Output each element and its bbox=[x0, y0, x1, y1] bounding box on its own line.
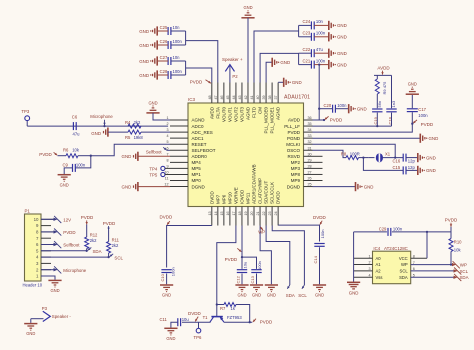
svg-text:29: 29 bbox=[308, 158, 312, 162]
svg-text:100n: 100n bbox=[171, 267, 176, 276]
wire pin23 SCL/CCLK bbox=[272, 226, 304, 286]
ground GND top center to pin 42 bbox=[241, 17, 254, 19]
svg-text:22: 22 bbox=[262, 211, 266, 215]
svg-text:1n3: 1n3 bbox=[391, 100, 396, 107]
svg-text:C21: C21 bbox=[303, 58, 311, 63]
svg-text:PVDD: PVDD bbox=[225, 257, 238, 262]
wire AVDD rail bbox=[374, 74, 392, 76]
svg-text:PVDD: PVDD bbox=[445, 217, 458, 222]
wire join C24/C23 pair to pin 41 bbox=[298, 25, 300, 36]
wire IC4 ground bus bbox=[353, 232, 355, 282]
svg-text:IC3: IC3 bbox=[188, 97, 196, 102]
svg-text:R6: R6 bbox=[63, 148, 69, 153]
svg-text:SDA: SDA bbox=[460, 275, 469, 280]
svg-text:C12: C12 bbox=[235, 275, 240, 283]
wire pin31 OSCO row bbox=[313, 150, 347, 157]
wire pin36 AVDD row bbox=[313, 119, 325, 121]
svg-text:PVDD: PVDD bbox=[260, 319, 273, 324]
svg-text:10n: 10n bbox=[316, 19, 324, 24]
svg-text:4: 4 bbox=[166, 134, 168, 138]
svg-text:100n: 100n bbox=[393, 226, 403, 231]
svg-text:7: 7 bbox=[166, 152, 168, 156]
resistor R9 475 bbox=[375, 79, 379, 94]
wire IC4 SDA bbox=[411, 276, 454, 278]
wire pin32 MCLKI row bbox=[313, 144, 396, 157]
ground GND for C9 bbox=[58, 174, 71, 176]
svg-text:R10: R10 bbox=[454, 239, 462, 244]
svg-text:MP4: MP4 bbox=[192, 160, 202, 165]
svg-text:48: 48 bbox=[208, 95, 212, 99]
svg-text:P2: P2 bbox=[232, 74, 238, 79]
svg-text:34: 34 bbox=[308, 128, 312, 132]
label PVDD pin8 bbox=[41, 231, 54, 233]
svg-text:47: 47 bbox=[214, 95, 218, 99]
eeprom IC4 pins bbox=[354, 257, 373, 259]
svg-text:GND: GND bbox=[60, 182, 69, 187]
svg-text:PLL_MODE0: PLL_MODE0 bbox=[264, 107, 269, 134]
svg-text:GND: GND bbox=[315, 293, 324, 298]
svg-text:PVDD: PVDD bbox=[287, 130, 300, 135]
svg-text:5: 5 bbox=[166, 140, 168, 144]
svg-text:GND: GND bbox=[122, 154, 132, 159]
svg-text:C26: C26 bbox=[160, 39, 168, 44]
wire IC4 SCL bbox=[411, 270, 454, 272]
wire join C25/C26 pair to pin 47 bbox=[185, 31, 187, 45]
wire pin35 PLL_LF to filter bbox=[313, 125, 392, 127]
svg-text:21: 21 bbox=[256, 211, 260, 215]
svg-text:42: 42 bbox=[244, 95, 248, 99]
svg-text:Selfboot: Selfboot bbox=[146, 149, 163, 154]
svg-text:Microphone: Microphone bbox=[63, 268, 86, 273]
svg-text:100n: 100n bbox=[76, 162, 86, 167]
svg-text:C10: C10 bbox=[160, 273, 165, 281]
svg-text:10u: 10u bbox=[242, 262, 247, 269]
svg-text:12V: 12V bbox=[63, 217, 71, 222]
svg-text:10u: 10u bbox=[182, 317, 190, 322]
svg-text:C14: C14 bbox=[313, 255, 318, 263]
IC IC4 AT24C128C EEPROM body bbox=[373, 251, 411, 284]
svg-text:GND: GND bbox=[267, 293, 276, 298]
svg-text:8: 8 bbox=[413, 254, 415, 258]
svg-text:SCL: SCL bbox=[114, 255, 123, 260]
capacitor C19 56n bbox=[376, 94, 378, 108]
svg-text:WP: WP bbox=[258, 230, 265, 235]
svg-text:C9: C9 bbox=[62, 162, 68, 167]
svg-text:A1: A1 bbox=[376, 262, 382, 267]
resistor R12 2k2 bbox=[85, 237, 89, 249]
ground GND IC4 bus bbox=[347, 281, 360, 283]
label SDA right bbox=[454, 276, 458, 279]
svg-text:PLL_MODE1: PLL_MODE1 bbox=[270, 107, 275, 134]
svg-text:SCL: SCL bbox=[298, 293, 307, 298]
svg-text:ADAU1701: ADAU1701 bbox=[284, 95, 310, 101]
svg-text:100n: 100n bbox=[337, 103, 347, 108]
svg-text:TP5: TP5 bbox=[149, 173, 157, 178]
svg-text:GND: GND bbox=[166, 336, 175, 341]
wire pin33 PGND row bbox=[313, 137, 420, 139]
svg-text:2k2: 2k2 bbox=[112, 243, 119, 248]
svg-text:GND: GND bbox=[337, 23, 347, 28]
svg-text:X1: X1 bbox=[385, 151, 391, 156]
svg-text:20: 20 bbox=[250, 211, 254, 215]
svg-text:RESET: RESET bbox=[192, 142, 207, 147]
IC3 top pins 48-37 with names bbox=[211, 83, 213, 104]
svg-text:10n: 10n bbox=[173, 55, 181, 60]
svg-text:GND: GND bbox=[139, 43, 149, 48]
label SCL bbox=[110, 254, 114, 257]
svg-text:GND: GND bbox=[252, 293, 261, 298]
svg-text:39: 39 bbox=[262, 95, 266, 99]
svg-text:ADDR1/CDATA/WB: ADDR1/CDATA/WB bbox=[252, 164, 257, 204]
svg-text:A0: A0 bbox=[376, 256, 382, 261]
svg-text:17: 17 bbox=[232, 211, 236, 215]
svg-text:GND: GND bbox=[357, 107, 367, 112]
svg-text:IOVDD: IOVDD bbox=[240, 189, 245, 204]
svg-text:GND: GND bbox=[162, 293, 171, 298]
svg-text:9: 9 bbox=[166, 164, 168, 168]
svg-text:PGND: PGND bbox=[287, 136, 301, 141]
svg-text:SDA: SDA bbox=[286, 293, 295, 298]
ground GND for C16 bbox=[417, 153, 419, 162]
crystal X1 bbox=[376, 153, 383, 162]
svg-text:R11: R11 bbox=[112, 238, 120, 243]
svg-text:PVDD: PVDD bbox=[421, 122, 434, 127]
label SDA bbox=[88, 248, 92, 251]
IC IC3 ADAU1701 DSP body bbox=[188, 103, 304, 207]
svg-text:AT24C128C: AT24C128C bbox=[384, 246, 408, 251]
svg-text:GND: GND bbox=[337, 51, 347, 56]
ground GND for C11 bbox=[164, 327, 177, 329]
svg-text:GND: GND bbox=[139, 59, 149, 64]
svg-text:P3: P3 bbox=[42, 306, 48, 311]
svg-text:AGND: AGND bbox=[276, 106, 281, 120]
ground GND for C27 bbox=[156, 56, 158, 65]
wire pin21 CLATCH/WP to GND bbox=[260, 226, 271, 285]
wire T1 collector to DVDD rail bbox=[209, 321, 212, 323]
svg-text:32: 32 bbox=[308, 140, 312, 144]
ground GND pin25 bbox=[355, 182, 357, 191]
label SCL bottom bbox=[302, 285, 305, 289]
label WP right bbox=[452, 263, 456, 266]
svg-text:PVDD: PVDD bbox=[190, 79, 203, 84]
label Microphone pin2 bbox=[41, 269, 54, 271]
wire pin13 DVDD to C10 bbox=[167, 226, 212, 268]
svg-text:GND: GND bbox=[426, 155, 436, 160]
capacitor C20 100n bbox=[319, 108, 332, 110]
svg-text:DVDD: DVDD bbox=[313, 215, 327, 220]
wire SCL row pin4 bbox=[41, 256, 109, 258]
wire pin34 PVDD row to C17 bbox=[313, 124, 413, 132]
svg-text:Speaker +: Speaker + bbox=[222, 57, 243, 62]
svg-text:Vss: Vss bbox=[376, 275, 383, 280]
svg-text:TP3: TP3 bbox=[21, 109, 29, 114]
wire pin24 DVDD bbox=[278, 225, 319, 241]
svg-text:MP10: MP10 bbox=[227, 192, 232, 204]
svg-text:AVDD: AVDD bbox=[377, 66, 390, 71]
svg-text:ADDR0: ADDR0 bbox=[192, 154, 208, 159]
svg-text:GND: GND bbox=[243, 5, 252, 10]
svg-text:GND: GND bbox=[408, 82, 417, 87]
svg-text:SCL/CCLK: SCL/CCLK bbox=[270, 182, 275, 204]
svg-text:3: 3 bbox=[368, 267, 370, 271]
svg-text:SCL: SCL bbox=[400, 269, 409, 274]
ground GND for C15 bbox=[417, 166, 419, 175]
svg-text:28: 28 bbox=[308, 164, 312, 168]
capacitor C10 100n bbox=[161, 269, 171, 271]
svg-text:GND: GND bbox=[26, 331, 35, 336]
wire IC4 WP to R10 bbox=[411, 264, 451, 266]
svg-text:ADC_RES: ADC_RES bbox=[192, 130, 213, 135]
ground GND for C10 bbox=[160, 284, 173, 286]
svg-text:GND: GND bbox=[148, 100, 157, 105]
svg-text:GND: GND bbox=[426, 168, 436, 173]
ground GND for C14 bbox=[313, 284, 326, 286]
svg-text:2k2: 2k2 bbox=[90, 238, 97, 243]
svg-text:SCL: SCL bbox=[460, 269, 469, 274]
svg-text:GND: GND bbox=[139, 29, 149, 34]
svg-text:WP: WP bbox=[401, 262, 408, 267]
svg-text:C28: C28 bbox=[160, 69, 168, 74]
svg-text:MP5: MP5 bbox=[192, 166, 202, 171]
svg-text:GND: GND bbox=[429, 136, 439, 141]
svg-text:41: 41 bbox=[250, 95, 254, 99]
svg-text:15: 15 bbox=[220, 211, 224, 215]
svg-text:A2: A2 bbox=[376, 269, 382, 274]
svg-text:13: 13 bbox=[208, 211, 212, 215]
svg-text:TP4: TP4 bbox=[149, 166, 157, 171]
svg-text:4: 4 bbox=[368, 274, 370, 278]
svg-text:GND: GND bbox=[364, 184, 374, 189]
power PVDD at C12 bbox=[237, 248, 241, 251]
svg-text:MP9: MP9 bbox=[291, 178, 301, 183]
svg-text:MP11: MP11 bbox=[246, 192, 251, 204]
svg-text:GND: GND bbox=[91, 131, 101, 136]
svg-text:10: 10 bbox=[34, 217, 39, 222]
wire pin25 DGND row bbox=[313, 186, 356, 188]
svg-text:DVDD: DVDD bbox=[276, 190, 281, 204]
svg-text:MP1: MP1 bbox=[192, 172, 202, 177]
power PVDD label at C17 bbox=[413, 120, 417, 123]
wire pin18 IOVDD down bbox=[241, 226, 243, 269]
svg-text:DGND: DGND bbox=[192, 184, 206, 189]
svg-text:100n: 100n bbox=[418, 113, 428, 118]
svg-text:38: 38 bbox=[268, 95, 272, 99]
capacitor C18 1n3 bbox=[386, 108, 396, 110]
svg-text:SDA/COUT: SDA/COUT bbox=[264, 180, 269, 204]
svg-text:44: 44 bbox=[232, 95, 236, 99]
wire pin22 SDA/COUT bbox=[266, 226, 290, 286]
resistor R11 2k2 bbox=[107, 242, 111, 254]
capacitor C14 100n bbox=[314, 243, 324, 245]
label WP at pin21 bbox=[260, 227, 263, 230]
svg-text:GND: GND bbox=[349, 290, 359, 295]
svg-text:VDRIVE: VDRIVE bbox=[234, 187, 239, 204]
svg-text:R5: R5 bbox=[125, 135, 131, 140]
svg-text:GND: GND bbox=[337, 62, 347, 67]
wire branch to C13 bbox=[242, 257, 257, 269]
svg-text:AGND: AGND bbox=[192, 118, 206, 123]
svg-text:R12: R12 bbox=[90, 232, 98, 237]
svg-text:33: 33 bbox=[308, 134, 312, 138]
svg-text:14: 14 bbox=[214, 211, 218, 215]
wire join C22/C21 pair to pin 40 bbox=[298, 53, 300, 64]
ground GND at pin 39 bbox=[266, 62, 272, 82]
svg-text:C11: C11 bbox=[160, 317, 168, 322]
svg-text:12p: 12p bbox=[408, 165, 416, 170]
svg-text:MP8: MP8 bbox=[291, 172, 301, 177]
IC3 left pins 1-12 with names bbox=[170, 119, 188, 121]
svg-text:R8: R8 bbox=[341, 152, 347, 157]
svg-text:VCC: VCC bbox=[399, 256, 408, 261]
svg-text:2: 2 bbox=[368, 261, 370, 265]
ground GND P1 pin1 bbox=[48, 279, 61, 281]
capacitor C13 100n bbox=[251, 269, 261, 271]
svg-text:40: 40 bbox=[256, 95, 260, 99]
svg-text:C6: C6 bbox=[72, 114, 78, 119]
svg-text:MP3: MP3 bbox=[291, 166, 301, 171]
svg-text:AVDD: AVDD bbox=[209, 106, 214, 119]
svg-text:C20: C20 bbox=[324, 103, 332, 108]
wire AVDD bus from C21 row down to pin 36 row bbox=[318, 65, 320, 120]
svg-text:SELFBOOT: SELFBOOT bbox=[192, 148, 216, 153]
connector P1 Header 10 body bbox=[25, 214, 42, 281]
ground GND for C25 bbox=[156, 26, 158, 35]
ground GND above C17 bbox=[406, 93, 419, 95]
svg-text:45: 45 bbox=[226, 95, 230, 99]
svg-text:C24: C24 bbox=[303, 19, 311, 24]
wire IC4 VCC to rail bbox=[411, 257, 427, 259]
svg-text:ADC1: ADC1 bbox=[192, 136, 205, 141]
svg-text:FLTD: FLTD bbox=[252, 106, 257, 118]
svg-text:GND: GND bbox=[50, 288, 59, 293]
svg-text:100n: 100n bbox=[173, 39, 183, 44]
ground GND P3 bbox=[24, 323, 37, 325]
svg-text:P1: P1 bbox=[25, 209, 31, 214]
svg-text:3: 3 bbox=[166, 128, 168, 132]
ground GND for C12 bbox=[235, 284, 248, 286]
label 12V bbox=[41, 218, 54, 220]
node microphone label bbox=[103, 125, 105, 127]
resistor R10 10k bbox=[449, 239, 453, 252]
svg-text:47u: 47u bbox=[73, 131, 81, 136]
ground GND for C26 bbox=[156, 40, 158, 49]
svg-text:2: 2 bbox=[166, 122, 168, 126]
ground GND for C21 bbox=[328, 60, 330, 69]
svg-text:ADC0: ADC0 bbox=[192, 124, 205, 129]
svg-text:8: 8 bbox=[166, 158, 168, 162]
svg-text:PVDD: PVDD bbox=[39, 152, 52, 157]
ground GND for C13 bbox=[250, 284, 263, 286]
svg-text:1: 1 bbox=[368, 254, 370, 258]
svg-text:VOUT1: VOUT1 bbox=[227, 107, 232, 123]
power PVDD at pin 36 row bbox=[325, 116, 329, 119]
svg-text:C25: C25 bbox=[160, 25, 168, 30]
svg-text:30: 30 bbox=[308, 152, 312, 156]
svg-text:FILTA: FILTA bbox=[215, 107, 220, 119]
svg-text:19k8: 19k8 bbox=[134, 135, 144, 140]
svg-text:100n: 100n bbox=[257, 261, 262, 270]
svg-text:C23: C23 bbox=[303, 31, 311, 36]
svg-text:VOUT2: VOUT2 bbox=[234, 107, 239, 123]
svg-text:R4: R4 bbox=[125, 120, 131, 125]
svg-text:DGND: DGND bbox=[287, 184, 301, 189]
wire SDA row pin5 bbox=[41, 250, 87, 252]
svg-text:MP6: MP6 bbox=[221, 194, 226, 204]
svg-text:10k: 10k bbox=[454, 247, 462, 252]
svg-text:CM: CM bbox=[258, 107, 263, 114]
svg-text:C29: C29 bbox=[379, 226, 387, 231]
svg-text:10n: 10n bbox=[173, 25, 181, 30]
svg-text:37: 37 bbox=[274, 95, 278, 99]
svg-text:47u: 47u bbox=[316, 47, 324, 52]
svg-text:C27: C27 bbox=[160, 55, 168, 60]
svg-text:C16: C16 bbox=[393, 159, 401, 164]
IC3 bottom pins 13-24 with names bbox=[211, 207, 213, 226]
svg-text:MP7: MP7 bbox=[215, 194, 220, 204]
svg-text:PVDD: PVDD bbox=[330, 117, 343, 122]
svg-text:T1: T1 bbox=[203, 315, 209, 320]
svg-text:R9 475: R9 475 bbox=[382, 81, 387, 95]
svg-text:GND: GND bbox=[139, 73, 149, 78]
svg-text:GND: GND bbox=[280, 60, 290, 65]
svg-text:11: 11 bbox=[165, 177, 169, 181]
svg-text:56n: 56n bbox=[377, 101, 382, 108]
svg-text:PLL_LF: PLL_LF bbox=[284, 124, 300, 129]
svg-text:MP2: MP2 bbox=[291, 160, 301, 165]
svg-text:27: 27 bbox=[308, 170, 312, 174]
svg-text:25: 25 bbox=[308, 183, 312, 187]
svg-text:DVDD: DVDD bbox=[209, 190, 214, 204]
svg-text:AGND: AGND bbox=[246, 106, 251, 120]
ground GND pin33 bbox=[419, 134, 421, 143]
capacitor C12 10u bbox=[237, 269, 247, 271]
ground GND WP net bbox=[265, 284, 278, 286]
svg-text:23: 23 bbox=[268, 211, 272, 215]
wire join C27/C28 pair to pin 48 bbox=[185, 61, 187, 75]
svg-text:PVDD: PVDD bbox=[103, 221, 116, 226]
wire pin17 VDRIVE to T1 base bbox=[217, 226, 236, 317]
svg-text:WP: WP bbox=[460, 262, 467, 267]
svg-text:24: 24 bbox=[274, 211, 278, 215]
svg-text:26: 26 bbox=[308, 177, 312, 181]
wire C29 PVDD rail bbox=[354, 231, 387, 233]
svg-text:GND: GND bbox=[337, 35, 347, 40]
svg-text:MCLKI: MCLKI bbox=[286, 142, 300, 147]
svg-text:Selfboot: Selfboot bbox=[63, 243, 80, 248]
svg-text:10k: 10k bbox=[72, 148, 80, 153]
svg-text:R7: R7 bbox=[220, 306, 226, 311]
svg-text:100n: 100n bbox=[173, 69, 183, 74]
svg-text:GND: GND bbox=[122, 184, 132, 189]
svg-text:36: 36 bbox=[308, 116, 312, 120]
svg-text:12: 12 bbox=[164, 183, 168, 187]
svg-text:100n: 100n bbox=[316, 31, 326, 36]
ground GND for C28 bbox=[156, 70, 158, 79]
svg-text:FZT953: FZT953 bbox=[227, 315, 242, 320]
svg-text:C15: C15 bbox=[393, 165, 401, 170]
ground GND for C20 bbox=[348, 104, 350, 113]
wire node A to C15 bbox=[363, 158, 403, 171]
label SDA bottom bbox=[287, 285, 290, 289]
svg-text:AVDD: AVDD bbox=[288, 118, 301, 123]
label Selfboot pin6 bbox=[41, 244, 54, 246]
svg-text:SDA: SDA bbox=[93, 249, 102, 254]
svg-text:6: 6 bbox=[413, 267, 415, 271]
svg-text:VOUT0: VOUT0 bbox=[221, 107, 226, 123]
svg-text:Header 10: Header 10 bbox=[23, 282, 43, 287]
label SCL right bbox=[454, 269, 458, 272]
svg-text:Microphone: Microphone bbox=[90, 114, 113, 119]
